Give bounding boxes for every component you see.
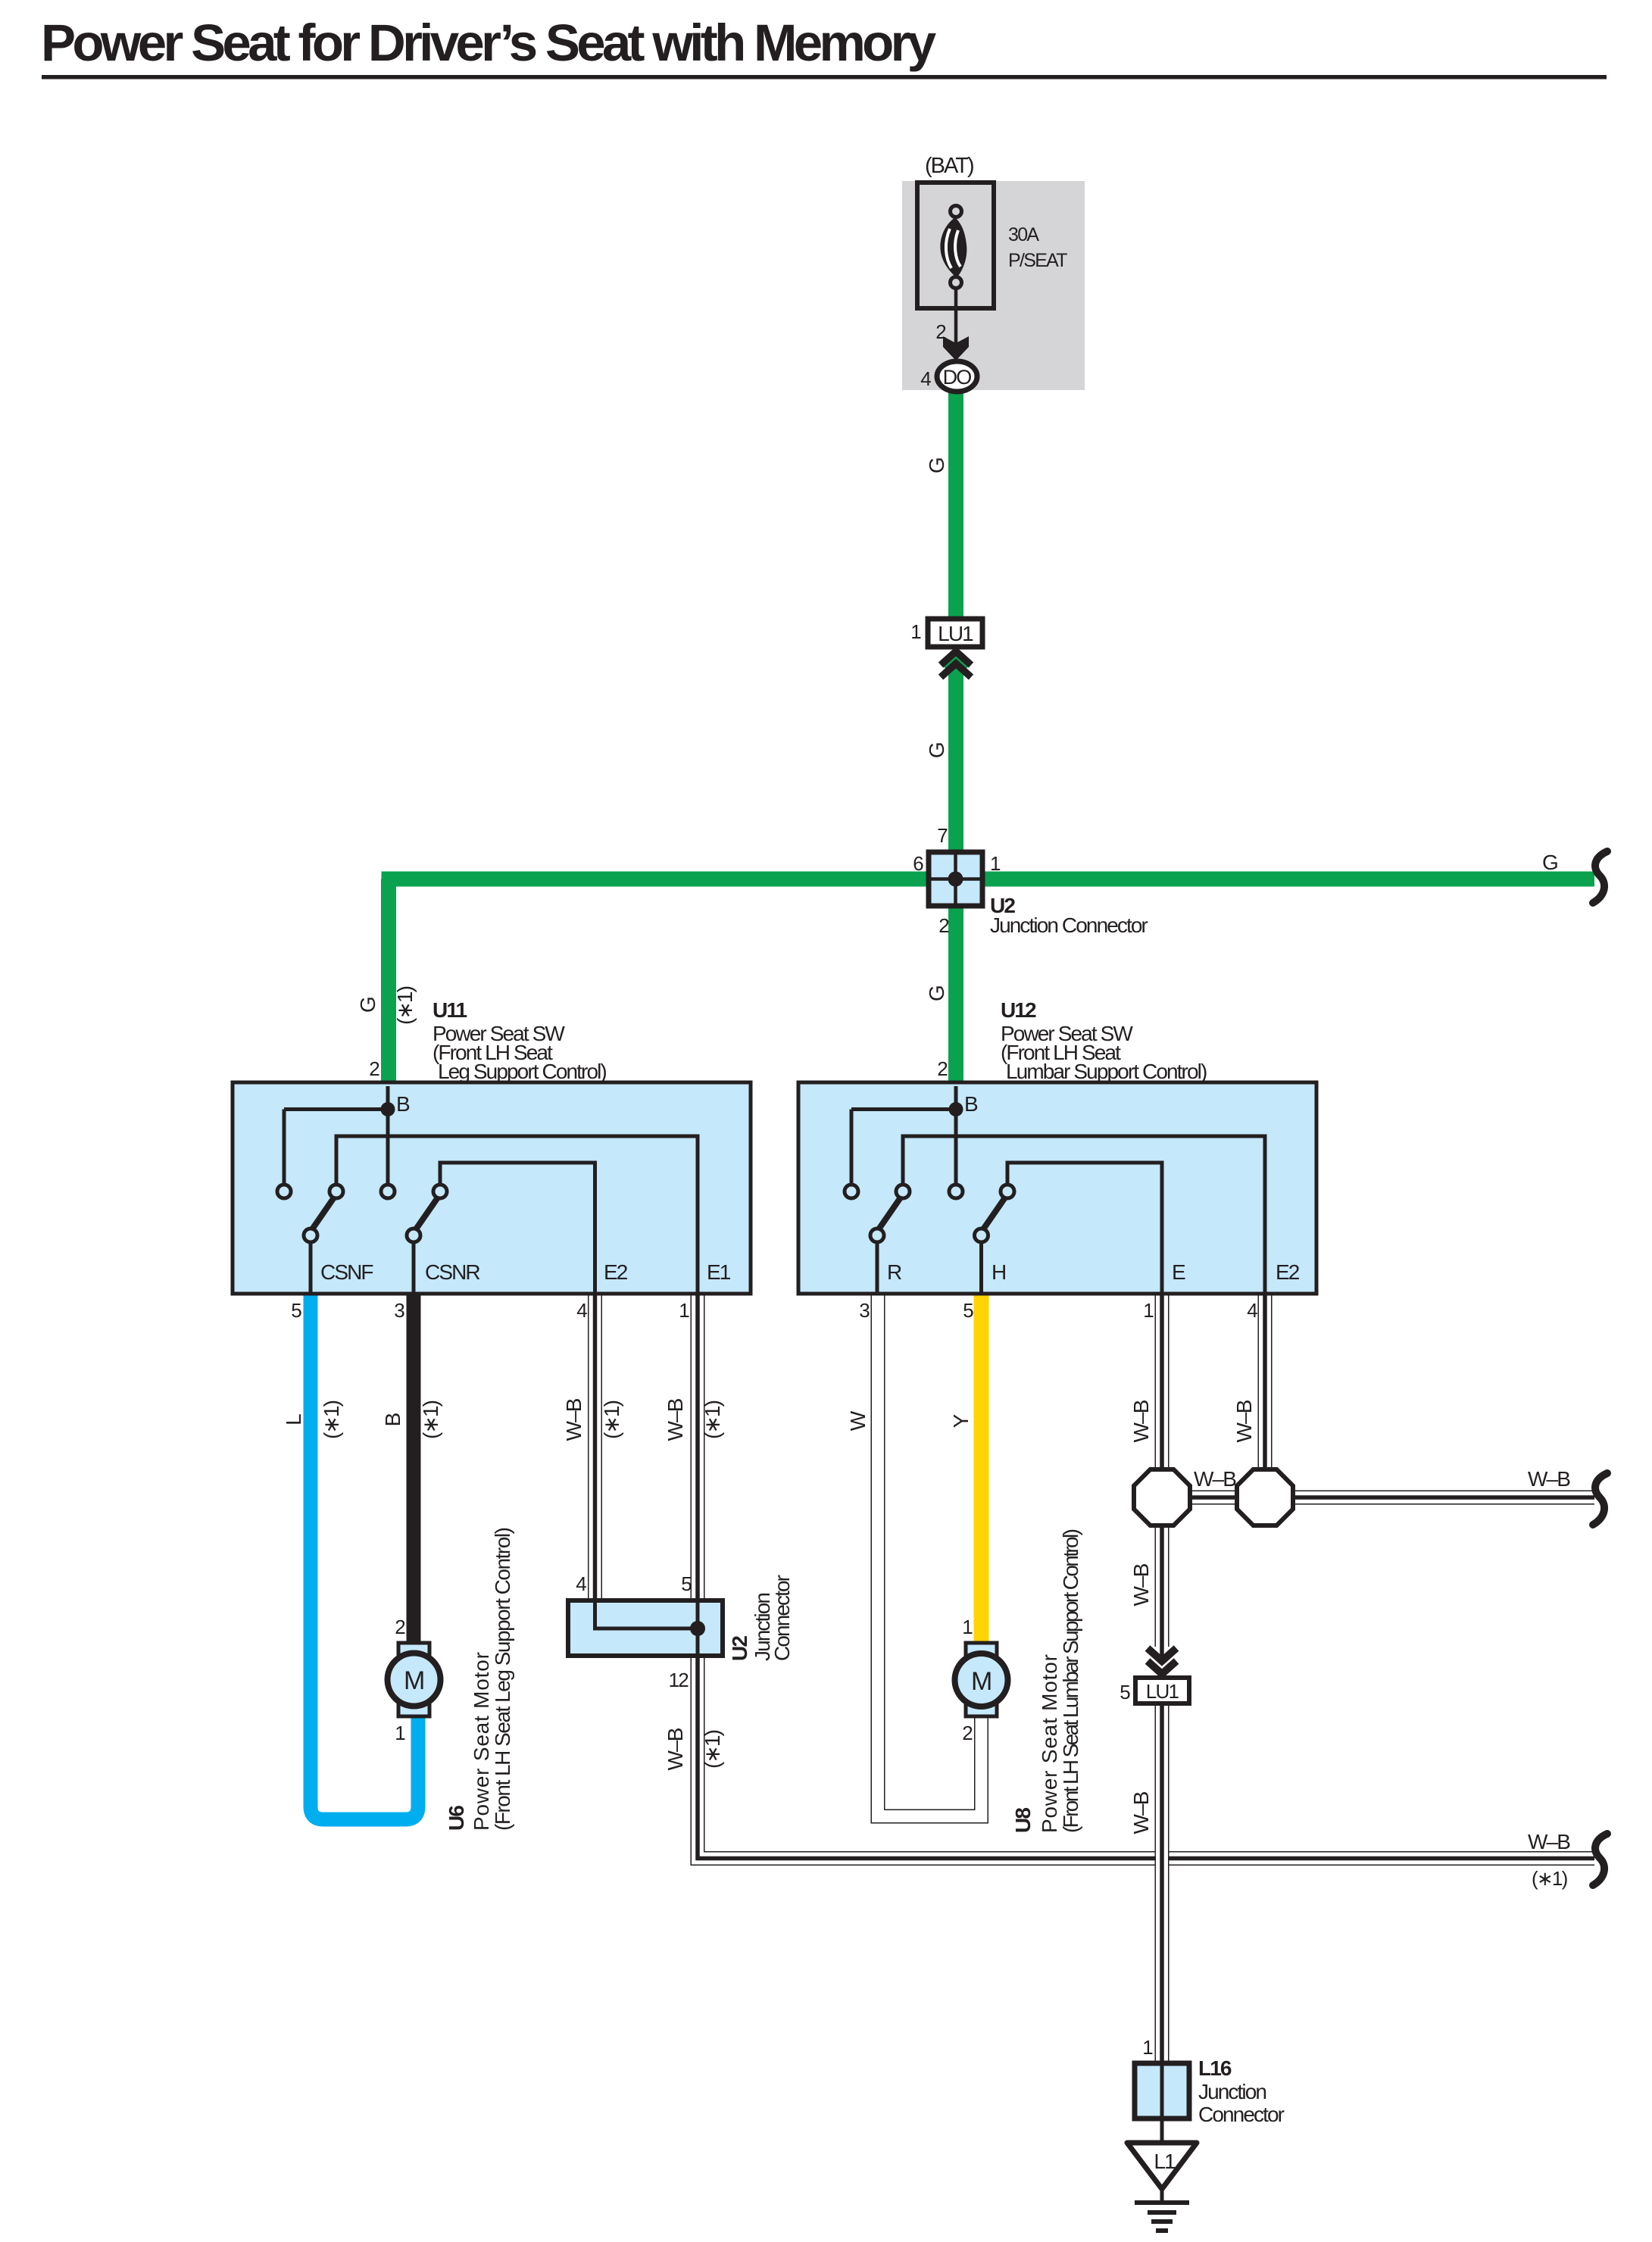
contact circles xyxy=(277,1185,291,1198)
svg-text:(Front LH Seat Leg Support Con: (Front LH Seat Leg Support Control) xyxy=(491,1528,514,1831)
svg-text:(∗1): (∗1) xyxy=(701,1730,724,1769)
node B of U11 xyxy=(284,1086,388,1185)
svg-text:Junction: Junction xyxy=(1198,2080,1266,2103)
svg-text:E2: E2 xyxy=(1276,1260,1300,1284)
switch CSNR arm xyxy=(416,1198,438,1229)
svg-text:W–B: W–B xyxy=(1232,1400,1256,1442)
svg-text:B: B xyxy=(964,1092,978,1116)
switch R arm xyxy=(879,1198,901,1229)
LABELS LAYER xyxy=(282,154,1570,2126)
wire G: green horizontal through junction U2 to right break xyxy=(382,872,1595,887)
svg-text:U11: U11 xyxy=(433,998,467,1022)
svg-text:G: G xyxy=(925,986,948,1001)
svg-text:Connector: Connector xyxy=(1198,2103,1285,2126)
svg-text:1: 1 xyxy=(962,1616,973,1638)
svg-text:U8: U8 xyxy=(1011,1808,1035,1833)
svg-text:(∗1): (∗1) xyxy=(393,986,417,1025)
svg-text:G: G xyxy=(356,998,379,1013)
svg-text:2: 2 xyxy=(962,1722,973,1744)
svg-text:W–B: W–B xyxy=(664,1728,687,1770)
octagon joint (right) xyxy=(1237,1469,1293,1525)
contact circles xyxy=(845,1185,858,1198)
arrow into DO xyxy=(943,336,969,361)
wire G: green chevron band between LU1 connector marks xyxy=(945,658,967,669)
svg-text:1: 1 xyxy=(990,852,1001,875)
title: Power Seat for Driver's Seat with Memory xyxy=(41,14,1607,80)
break symbol on octagon W-B wire right end xyxy=(1593,1473,1607,1525)
wire from fuse to DO xyxy=(954,288,958,361)
svg-text:U12: U12 xyxy=(1001,998,1036,1022)
connector LU1 (top) xyxy=(928,619,982,677)
switch CSNF arm xyxy=(312,1198,334,1229)
wire to E2 xyxy=(903,1136,1265,1292)
wire G: green vertical from below LU1 chevron to junction U2 xyxy=(948,660,963,856)
junction connector U2 (top) xyxy=(929,852,982,906)
svg-text:G: G xyxy=(1542,851,1557,874)
wire G: green vertical below junction U2 to U12 pin 2 xyxy=(948,902,963,1086)
svg-text:Junction Connector: Junction Connector xyxy=(990,913,1148,937)
svg-text:Leg Support Control): Leg Support Control) xyxy=(438,1060,606,1083)
svg-text:5: 5 xyxy=(681,1572,692,1595)
ground L1 xyxy=(1127,2143,1197,2231)
svg-text:G: G xyxy=(925,743,948,758)
svg-text:(∗1): (∗1) xyxy=(320,1400,343,1439)
node B of U12 xyxy=(851,1086,956,1185)
svg-text:B: B xyxy=(381,1413,404,1426)
svg-text:4: 4 xyxy=(1247,1299,1257,1322)
svg-text:1: 1 xyxy=(395,1722,405,1744)
switch box U11 xyxy=(233,1082,751,1294)
svg-text:4: 4 xyxy=(576,1572,586,1595)
svg-text:L16: L16 xyxy=(1198,2056,1232,2080)
wire B: black wire from U11 CSNR pin 3 to motor U6 pin 2 xyxy=(407,1290,421,1645)
svg-text:M: M xyxy=(971,1667,991,1696)
svg-text:Connector: Connector xyxy=(770,1575,794,1661)
svg-text:2: 2 xyxy=(369,1057,379,1080)
svg-text:2: 2 xyxy=(938,914,949,937)
svg-text:Lumbar Support Control): Lumbar Support Control) xyxy=(1006,1060,1207,1083)
svg-text:W–B: W–B xyxy=(1194,1467,1236,1491)
svg-text:W: W xyxy=(846,1410,870,1431)
svg-text:1: 1 xyxy=(1142,2036,1153,2059)
chevron up (in-line connector mark) xyxy=(941,651,971,665)
svg-text:1: 1 xyxy=(679,1299,689,1322)
svg-text:L: L xyxy=(282,1414,305,1425)
svg-text:7: 7 xyxy=(937,824,948,847)
wire W-B: from octagon down to chevron above LU1 xyxy=(1155,1519,1170,1647)
svg-text:Y: Y xyxy=(949,1413,973,1428)
wire W-B stripe continuing into chevron xyxy=(1160,1647,1164,1659)
wire W: white wire from U12 R pin 3 to motor U8 pin 2 xyxy=(878,1290,982,1816)
wire W-B: from U12 E pin 1 down to octagon joint xyxy=(1155,1290,1170,1477)
svg-text:P/SEAT: P/SEAT xyxy=(1008,250,1067,271)
junction connector U2 (lower) xyxy=(568,1600,723,1656)
svg-text:W–B: W–B xyxy=(1129,1563,1153,1606)
svg-text:(∗1): (∗1) xyxy=(600,1400,623,1439)
octagon joint (left) xyxy=(1134,1469,1190,1525)
svg-text:M: M xyxy=(404,1666,423,1695)
break symbol on green wire right end xyxy=(1593,851,1607,903)
wire to E2 xyxy=(440,1163,595,1292)
svg-text:3: 3 xyxy=(394,1299,404,1322)
svg-text:12: 12 xyxy=(669,1669,689,1691)
svg-text:CSNF: CSNF xyxy=(320,1260,373,1284)
chevron down xyxy=(1148,1648,1176,1661)
svg-text:5: 5 xyxy=(963,1299,973,1322)
switch box U12 xyxy=(798,1082,1316,1294)
svg-text:6: 6 xyxy=(913,852,923,875)
svg-text:W–B: W–B xyxy=(1129,1791,1153,1834)
svg-text:3: 3 xyxy=(859,1299,870,1322)
fuse block background xyxy=(902,181,1085,390)
connector DO xyxy=(937,361,977,392)
svg-text:4: 4 xyxy=(920,367,931,390)
wire L: blue wire from U11 CSNF pin 5 to motor U6 pin 1 xyxy=(311,1290,418,1819)
svg-text:1: 1 xyxy=(910,620,921,643)
svg-text:W–B: W–B xyxy=(664,1398,687,1441)
svg-text:(Front LH Seat Lumbar Support: (Front LH Seat Lumbar Support Control) xyxy=(1059,1529,1082,1833)
wire G: green left branch down to U11 pin 2 xyxy=(381,879,396,1087)
svg-text:30A: 30A xyxy=(1008,224,1039,245)
motor U6 xyxy=(388,1643,441,1716)
wire G: green vertical from DO to LU1 xyxy=(948,390,963,620)
svg-text:W–B: W–B xyxy=(1129,1400,1153,1442)
svg-text:LU1: LU1 xyxy=(1146,1680,1179,1703)
svg-text:5: 5 xyxy=(1120,1681,1130,1703)
svg-text:W–B: W–B xyxy=(562,1398,586,1441)
svg-text:DO: DO xyxy=(943,366,972,389)
svg-text:2: 2 xyxy=(935,320,946,343)
svg-text:2: 2 xyxy=(937,1057,948,1080)
wire to E1 xyxy=(336,1136,698,1292)
svg-text:G: G xyxy=(925,458,948,473)
svg-text:H: H xyxy=(992,1260,1005,1284)
svg-text:E2: E2 xyxy=(604,1260,628,1284)
svg-text:(BAT): (BAT) xyxy=(925,154,973,178)
wire W-B: from U11 E2 pin 4 down to junction connector U2 xyxy=(588,1290,602,1606)
svg-text:(∗1): (∗1) xyxy=(701,1400,724,1439)
svg-text:B: B xyxy=(396,1092,410,1116)
svg-text:R: R xyxy=(887,1260,901,1284)
break symbol on bottom W-B wire right end xyxy=(1593,1834,1607,1885)
wire W-B: from LU1 down to junction connector L16 xyxy=(1155,1703,1170,2067)
junction connector L16 xyxy=(1135,2063,1189,2145)
motor U8 xyxy=(955,1643,1008,1716)
svg-text:2: 2 xyxy=(395,1616,405,1638)
wire W-B: horizontal through octagons to right break xyxy=(1162,1491,1594,1505)
fuse 30A P/SEAT xyxy=(917,183,994,361)
wire Y: yellow wire from U12 H pin 5 to motor U8 pin 1 xyxy=(974,1290,989,1645)
svg-text:U6: U6 xyxy=(445,1806,468,1831)
wire to E xyxy=(1007,1163,1162,1292)
svg-text:Power Seat for Driver’s Seat w: Power Seat for Driver’s Seat with Memory xyxy=(41,14,936,72)
wire W-B: from U11 E1 pin 1 down through junction, to bottom right break xyxy=(698,1290,1594,1859)
connector LU1 (lower) xyxy=(1135,1647,1189,1703)
svg-text:L1: L1 xyxy=(1154,2150,1176,2173)
svg-text:U2: U2 xyxy=(728,1636,751,1661)
svg-text:1: 1 xyxy=(1143,1299,1154,1322)
svg-text:5: 5 xyxy=(291,1299,301,1322)
svg-text:(∗1): (∗1) xyxy=(419,1400,442,1439)
svg-text:LU1: LU1 xyxy=(938,622,973,645)
wire W-B: from U12 E2 pin 4 down to octagon joint xyxy=(1258,1290,1273,1477)
svg-text:CSNR: CSNR xyxy=(425,1260,479,1284)
svg-text:W–B: W–B xyxy=(1528,1830,1570,1853)
svg-text:4: 4 xyxy=(576,1299,587,1322)
svg-text:(∗1): (∗1) xyxy=(1532,1867,1568,1890)
WIRES LAYER xyxy=(311,390,1594,2067)
svg-text:E: E xyxy=(1172,1260,1185,1284)
switch H arm xyxy=(983,1198,1005,1229)
svg-text:W–B: W–B xyxy=(1528,1467,1570,1491)
svg-text:E1: E1 xyxy=(707,1260,731,1284)
